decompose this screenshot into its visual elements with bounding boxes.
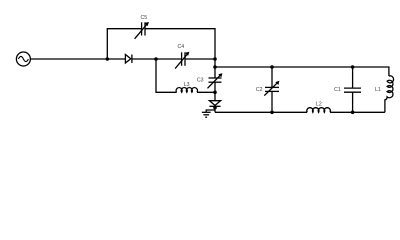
svg-text:C2: C2 [256, 87, 263, 93]
svg-text:C5: C5 [140, 15, 147, 21]
svg-text:C1: C1 [334, 87, 341, 93]
svg-text:L3: L3 [184, 82, 190, 88]
svg-text:C4: C4 [177, 44, 184, 50]
svg-text:L1: L1 [375, 87, 381, 93]
svg-text:L2: L2 [316, 102, 322, 108]
svg-text:C3: C3 [197, 77, 204, 83]
